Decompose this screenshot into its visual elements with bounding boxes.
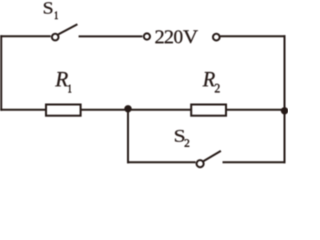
supply terminal circle right xyxy=(213,34,220,41)
wire bottom left of S2 xyxy=(127,161,196,163)
label 220V xyxy=(155,30,198,43)
wire right vertical xyxy=(284,35,286,163)
label S1 xyxy=(44,2,53,13)
label R2 xyxy=(203,72,215,86)
switch S2 blade xyxy=(203,151,221,161)
switch S1 blade xyxy=(58,24,77,34)
label R2 subscript 2 xyxy=(215,84,220,93)
label R1 subscript 1 xyxy=(69,85,72,93)
junction node middle xyxy=(125,106,130,111)
switch S2 pivot circle xyxy=(197,160,204,167)
junction node right xyxy=(282,108,287,113)
label S1 subscript 1 xyxy=(55,12,58,19)
wire bottom right of S2 xyxy=(223,161,286,163)
label S2 subscript 2 xyxy=(185,139,190,146)
label R1 xyxy=(55,72,68,86)
wire S2 branch vertical xyxy=(127,109,129,164)
wire middle row xyxy=(0,109,283,111)
wire terminal to top-right corner xyxy=(221,35,286,37)
wire left vertical xyxy=(0,35,2,111)
wire S1 to supply terminal xyxy=(79,35,143,37)
resistor R1 xyxy=(46,105,81,116)
supply terminal circle left xyxy=(144,33,150,39)
label S2 xyxy=(175,130,184,142)
wire top-left horizontal xyxy=(0,35,51,37)
switch S1 pivot circle xyxy=(52,34,59,41)
resistor R2 xyxy=(191,105,226,116)
